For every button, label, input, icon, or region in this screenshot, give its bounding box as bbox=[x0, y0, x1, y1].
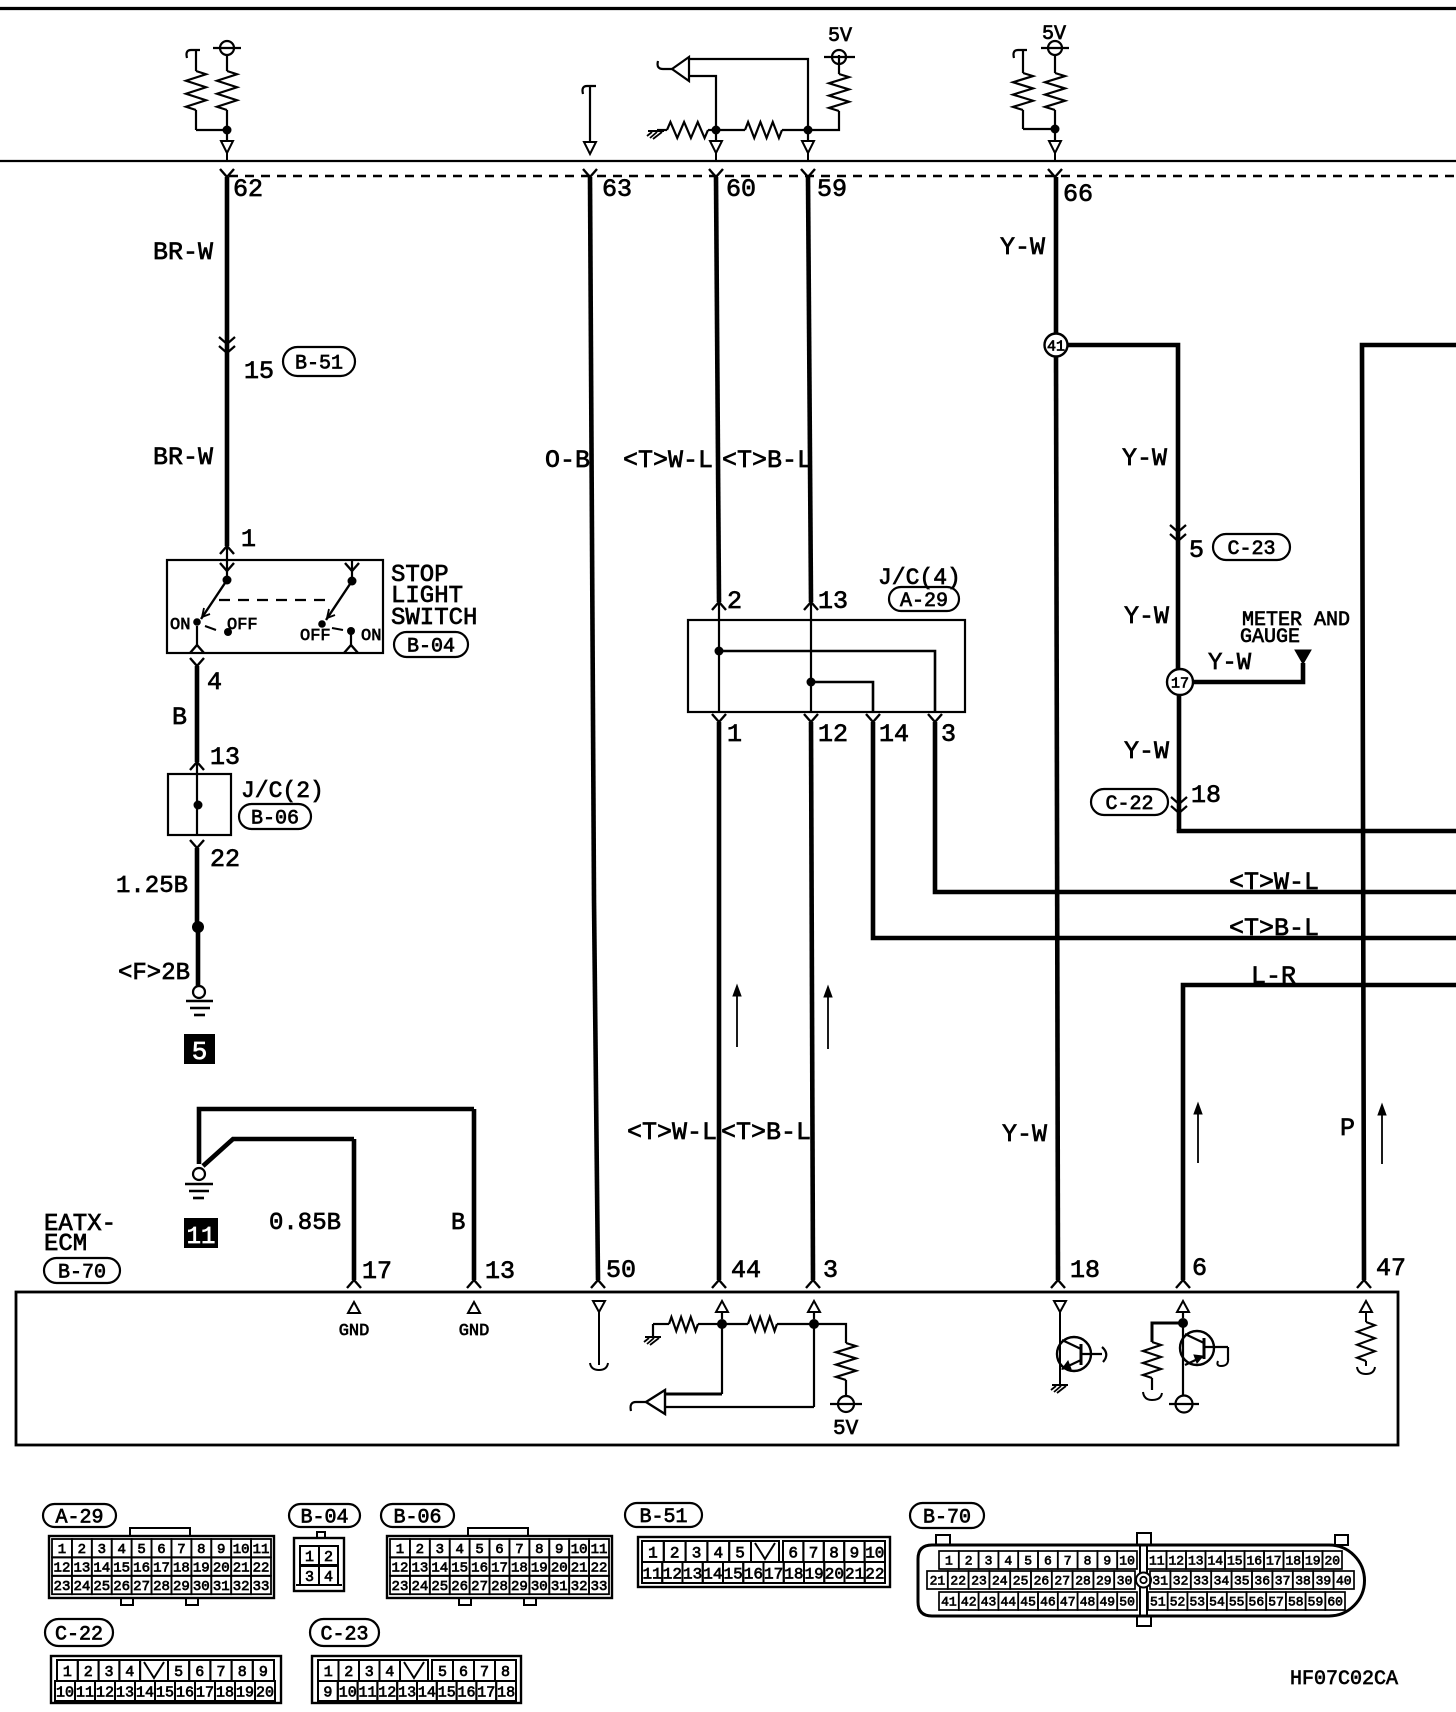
svg-text:6: 6 bbox=[788, 1544, 798, 1562]
svg-text:22: 22 bbox=[591, 1561, 608, 1577]
wire P from right edge to pin47 bbox=[1362, 345, 1456, 1280]
svg-text:20: 20 bbox=[825, 1565, 844, 1583]
svg-text:13: 13 bbox=[683, 1565, 702, 1583]
svg-text:23: 23 bbox=[54, 1579, 71, 1595]
svg-text:20: 20 bbox=[1324, 1554, 1340, 1569]
svg-text:1: 1 bbox=[63, 1664, 72, 1681]
svg-text:41: 41 bbox=[941, 1595, 957, 1610]
resistor R-int4 bbox=[720, 129, 745, 131]
svg-text:B-06: B-06 bbox=[251, 808, 299, 831]
pin 50 hook bbox=[590, 1363, 608, 1370]
svg-text:44: 44 bbox=[1000, 1595, 1016, 1610]
wire L-R from right edge to pin6 bbox=[1183, 985, 1456, 1280]
splice node bbox=[192, 921, 204, 933]
hook at Q1 base bbox=[1102, 1347, 1106, 1362]
svg-text:47: 47 bbox=[1060, 1595, 1076, 1610]
svg-text:7: 7 bbox=[1064, 1554, 1072, 1569]
svg-text:10: 10 bbox=[339, 1684, 357, 1701]
meter arrow bbox=[1295, 650, 1311, 664]
svg-text:52: 52 bbox=[1170, 1595, 1186, 1610]
svg-text:C-23: C-23 bbox=[320, 1624, 368, 1647]
transistor Q1 base bar bbox=[1080, 1344, 1083, 1365]
svg-text:16: 16 bbox=[133, 1561, 150, 1577]
svg-text:17: 17 bbox=[1171, 676, 1189, 693]
svg-text:8: 8 bbox=[829, 1544, 839, 1562]
svg-text:30: 30 bbox=[1117, 1574, 1133, 1589]
svg-text:2: 2 bbox=[78, 1542, 86, 1558]
svg-text:4: 4 bbox=[125, 1664, 134, 1681]
svg-text:10: 10 bbox=[865, 1544, 884, 1562]
svg-text:17: 17 bbox=[477, 1684, 495, 1701]
svg-text:13: 13 bbox=[1188, 1554, 1204, 1569]
pin 13 GND arrow bbox=[468, 1302, 480, 1313]
svg-text:42: 42 bbox=[961, 1595, 977, 1610]
svg-text:3: 3 bbox=[692, 1544, 702, 1562]
svg-text:O-B: O-B bbox=[545, 446, 590, 475]
svg-text:14: 14 bbox=[879, 720, 909, 749]
pin 62 internal arrow bbox=[226, 130, 228, 141]
pin 3 internal arrow bbox=[808, 1301, 820, 1312]
ground (pin18) bbox=[1052, 1384, 1068, 1386]
svg-text:31: 31 bbox=[551, 1579, 568, 1595]
wire (T)W-L pin60 to J/C(4) bbox=[716, 177, 719, 602]
tag A-29 bbox=[889, 587, 959, 611]
engine ECM bottom border bbox=[0, 160, 1456, 162]
svg-text:11: 11 bbox=[187, 1224, 216, 1251]
node pin3 bbox=[809, 1319, 819, 1329]
svg-text:21: 21 bbox=[845, 1565, 864, 1583]
wire bbox=[1023, 128, 1055, 130]
svg-text:2: 2 bbox=[324, 1549, 333, 1566]
svg-text:60: 60 bbox=[726, 175, 756, 204]
switch link dash 1 bbox=[205, 626, 216, 630]
svg-text:4: 4 bbox=[713, 1544, 723, 1562]
svg-text:1: 1 bbox=[305, 1549, 314, 1566]
hook at buffer U-bottom bbox=[631, 1402, 646, 1411]
pin 3 fork bbox=[806, 1280, 813, 1288]
svg-text:28: 28 bbox=[491, 1579, 508, 1595]
svg-text:24: 24 bbox=[73, 1579, 90, 1595]
resistor R-int2 (pin62 right) bbox=[226, 55, 228, 71]
svg-text:5: 5 bbox=[438, 1664, 447, 1681]
pin 47 fork bbox=[1357, 1280, 1364, 1288]
pin 17 fork bbox=[347, 1280, 354, 1288]
svg-text:8: 8 bbox=[535, 1542, 543, 1558]
svg-text:1: 1 bbox=[241, 525, 256, 554]
junction node (pin59) bbox=[804, 126, 813, 135]
svg-text:C-22: C-22 bbox=[55, 1624, 103, 1647]
svg-text:10: 10 bbox=[1119, 1554, 1135, 1569]
svg-text:19: 19 bbox=[1305, 1554, 1321, 1569]
svg-text:5V: 5V bbox=[828, 25, 852, 48]
svg-text:12: 12 bbox=[1168, 1554, 1184, 1569]
buffer U-bottom bbox=[646, 1390, 665, 1414]
J/C(2) exit fork bbox=[190, 840, 197, 848]
svg-text:44: 44 bbox=[731, 1256, 761, 1285]
svg-text:BR-W: BR-W bbox=[153, 238, 213, 267]
switch output lead bbox=[196, 626, 198, 645]
switch exit fork bbox=[190, 658, 197, 666]
switch blade 1 bbox=[201, 580, 227, 619]
ground symbol 11 bars bbox=[185, 1183, 213, 1186]
svg-text:13: 13 bbox=[116, 1684, 134, 1701]
switch OFF contact 1 bbox=[224, 628, 232, 636]
svg-text:14: 14 bbox=[136, 1684, 154, 1701]
svg-text:56: 56 bbox=[1249, 1595, 1265, 1610]
svg-text:50: 50 bbox=[1119, 1595, 1135, 1610]
J/C(4) lead pin2-pin1 bbox=[718, 620, 720, 712]
svg-text:B-06: B-06 bbox=[393, 1507, 441, 1530]
svg-text:13: 13 bbox=[398, 1684, 416, 1701]
svg-text:5: 5 bbox=[1189, 536, 1204, 565]
pin 63 fork bbox=[583, 169, 590, 177]
connector boundary dashed line bbox=[229, 175, 1456, 177]
svg-text:GND: GND bbox=[459, 1322, 490, 1341]
svg-text:2: 2 bbox=[84, 1664, 93, 1681]
svg-text:B-04: B-04 bbox=[300, 1507, 348, 1530]
svg-text:39: 39 bbox=[1316, 1574, 1332, 1589]
pin 63 internal lead bbox=[589, 86, 591, 142]
hook to internal circuit (pin62 left resistor) bbox=[187, 50, 201, 58]
transistor Q1 circle bbox=[1057, 1337, 1091, 1371]
wire (T)W-L J/C(4) to pin44 bbox=[717, 722, 722, 1280]
svg-text:18: 18 bbox=[216, 1684, 234, 1701]
svg-text:<T>W-L: <T>W-L bbox=[627, 1118, 717, 1147]
svg-text:17: 17 bbox=[1266, 1554, 1282, 1569]
pin 66 fork bbox=[1048, 169, 1055, 177]
svg-text:6: 6 bbox=[1192, 1254, 1207, 1283]
svg-text:17: 17 bbox=[764, 1565, 783, 1583]
pin 18 internal lead bbox=[1059, 1312, 1061, 1384]
J/C(4) pin14 fork bbox=[866, 714, 873, 722]
transistor Q2 emitter bbox=[1185, 1356, 1204, 1365]
svg-text:22: 22 bbox=[950, 1574, 966, 1589]
switch ON contact 1 bbox=[193, 618, 201, 626]
svg-text:15: 15 bbox=[1227, 1554, 1243, 1569]
svg-text:21: 21 bbox=[571, 1561, 588, 1577]
ground symbol 5 bars bbox=[186, 1000, 213, 1003]
connector C-22 break chevrons bbox=[1171, 797, 1187, 804]
svg-text:20: 20 bbox=[551, 1561, 568, 1577]
J/C(4) internal bus B bbox=[811, 682, 873, 712]
svg-text:50: 50 bbox=[606, 1256, 636, 1285]
svg-text:2: 2 bbox=[670, 1544, 680, 1562]
svg-text:Y-W: Y-W bbox=[1000, 233, 1045, 262]
svg-text:28: 28 bbox=[1075, 1574, 1091, 1589]
svg-text:29: 29 bbox=[511, 1579, 528, 1595]
svg-text:ON: ON bbox=[361, 627, 381, 646]
svg-text:13: 13 bbox=[485, 1257, 515, 1286]
svg-text:24: 24 bbox=[992, 1574, 1008, 1589]
svg-text:57: 57 bbox=[1268, 1595, 1284, 1610]
svg-text:33: 33 bbox=[1193, 1574, 1209, 1589]
wire to 5V pullup bbox=[812, 111, 839, 130]
junction node (pin62) bbox=[223, 126, 232, 135]
svg-text:12: 12 bbox=[96, 1684, 114, 1701]
svg-text:B: B bbox=[451, 1210, 465, 1237]
switch link dash 2 bbox=[332, 628, 343, 630]
switch pole 1 node bbox=[223, 576, 232, 585]
svg-text:33: 33 bbox=[591, 1579, 608, 1595]
J/C(4) pin12 fork bbox=[804, 714, 811, 722]
svg-text:18: 18 bbox=[511, 1561, 528, 1577]
node pin44 bbox=[717, 1319, 727, 1329]
pin 60 internal arrow bbox=[715, 130, 717, 141]
svg-text:19: 19 bbox=[193, 1561, 210, 1577]
svg-text:SWITCH: SWITCH bbox=[391, 605, 477, 632]
svg-text:ON: ON bbox=[170, 616, 190, 635]
svg-text:17: 17 bbox=[153, 1561, 170, 1577]
svg-text:16: 16 bbox=[457, 1684, 475, 1701]
wire B switch to J/C(2) bbox=[195, 666, 200, 762]
svg-text:1: 1 bbox=[324, 1664, 333, 1681]
connector B-06 pinout bbox=[381, 1504, 454, 1527]
svg-text:30: 30 bbox=[531, 1579, 548, 1595]
svg-text:41: 41 bbox=[1047, 339, 1065, 356]
svg-text:37: 37 bbox=[1275, 1574, 1291, 1589]
svg-text:13: 13 bbox=[73, 1561, 90, 1577]
svg-text:32: 32 bbox=[571, 1579, 588, 1595]
pin 44 internal arrow bbox=[716, 1301, 728, 1312]
buffer U-top bbox=[672, 57, 689, 81]
svg-text:Y-W: Y-W bbox=[1124, 602, 1169, 631]
svg-text:17: 17 bbox=[491, 1561, 508, 1577]
svg-text:9: 9 bbox=[555, 1542, 563, 1558]
svg-text:B-04: B-04 bbox=[407, 636, 455, 659]
svg-text:1: 1 bbox=[396, 1542, 404, 1558]
svg-text:47: 47 bbox=[1376, 1254, 1406, 1283]
svg-text:32: 32 bbox=[1173, 1574, 1189, 1589]
resistor R-int9 bbox=[722, 1323, 748, 1325]
svg-text:14: 14 bbox=[93, 1561, 110, 1577]
pin 13 fork bbox=[467, 1280, 474, 1288]
J/C(4) node A bbox=[715, 647, 724, 656]
wire to meter and gauge bbox=[1193, 663, 1303, 682]
direction arrow (T)B-L bbox=[827, 993, 829, 1049]
wire to resistor bbox=[1152, 1323, 1183, 1342]
pin 60 fork bbox=[709, 169, 716, 177]
resistor R-int12 bbox=[1357, 1322, 1375, 1361]
svg-text:11: 11 bbox=[253, 1542, 270, 1558]
svg-text:14: 14 bbox=[1207, 1554, 1223, 1569]
pin 59 internal arrow bbox=[807, 130, 809, 141]
svg-text:B: B bbox=[172, 703, 187, 732]
svg-text:5V: 5V bbox=[833, 1418, 859, 1441]
svg-text:12: 12 bbox=[378, 1684, 396, 1701]
svg-text:17: 17 bbox=[196, 1684, 214, 1701]
svg-text:C-22: C-22 bbox=[1105, 793, 1153, 816]
wire 0.85B diagonal bbox=[203, 1139, 354, 1166]
hook at Q2 base bbox=[1217, 1358, 1228, 1366]
wire O-B pin63 to pin50 bbox=[590, 177, 594, 900]
hook to internal circuit (buffer U-top) bbox=[658, 61, 672, 69]
svg-text:59: 59 bbox=[1308, 1595, 1324, 1610]
svg-text:15: 15 bbox=[244, 357, 274, 386]
ground (buffer top) bbox=[657, 129, 667, 131]
ground symbol 5 circle bbox=[193, 986, 205, 998]
svg-text:7: 7 bbox=[480, 1664, 489, 1681]
svg-text:3: 3 bbox=[365, 1664, 374, 1681]
transistor Q2 base lead bbox=[1204, 1346, 1228, 1348]
svg-text:1: 1 bbox=[58, 1542, 66, 1558]
svg-text:54: 54 bbox=[1209, 1595, 1225, 1610]
svg-text:4: 4 bbox=[455, 1542, 463, 1558]
svg-text:16: 16 bbox=[176, 1684, 194, 1701]
svg-text:40: 40 bbox=[1336, 1574, 1352, 1589]
svg-text:11: 11 bbox=[591, 1542, 608, 1558]
svg-text:66: 66 bbox=[1063, 180, 1093, 209]
connector B-51 break chevrons bbox=[219, 337, 235, 344]
pin 63 internal arrow bbox=[584, 142, 596, 154]
svg-text:13: 13 bbox=[411, 1561, 428, 1577]
svg-text:46: 46 bbox=[1040, 1595, 1056, 1610]
svg-text:27: 27 bbox=[133, 1579, 150, 1595]
J/C(4) pin3 fork bbox=[928, 714, 935, 722]
svg-text:27: 27 bbox=[1054, 1574, 1070, 1589]
svg-text:21: 21 bbox=[233, 1561, 250, 1577]
tag B-51 bbox=[283, 347, 355, 376]
wire 1.25B bbox=[195, 848, 200, 924]
svg-text:14: 14 bbox=[703, 1565, 722, 1583]
output symbol (pin6) bbox=[1176, 1396, 1193, 1413]
svg-text:<T>B-L: <T>B-L bbox=[722, 446, 812, 475]
resistor R-int7 (pin66 right) bbox=[1054, 55, 1056, 73]
connector B-04 pinout bbox=[289, 1504, 360, 1527]
svg-text:11: 11 bbox=[643, 1565, 662, 1583]
wire Y-W pin66 to node41 bbox=[1054, 177, 1059, 334]
svg-text:10: 10 bbox=[571, 1542, 588, 1558]
connector C-23 break chevrons bbox=[1170, 525, 1186, 532]
svg-text:5: 5 bbox=[735, 1544, 745, 1562]
svg-text:3: 3 bbox=[436, 1542, 444, 1558]
svg-text:4: 4 bbox=[1004, 1554, 1012, 1569]
svg-text:5: 5 bbox=[192, 1037, 208, 1067]
svg-text:GAUGE: GAUGE bbox=[1240, 626, 1300, 649]
svg-text:7: 7 bbox=[809, 1544, 819, 1562]
connector B-51 pinout bbox=[625, 1503, 702, 1527]
svg-text:6: 6 bbox=[1044, 1554, 1052, 1569]
svg-text:<F>2B: <F>2B bbox=[118, 960, 190, 987]
svg-text:GND: GND bbox=[339, 1322, 370, 1341]
junction node (pin66) bbox=[1051, 125, 1060, 134]
svg-text:18: 18 bbox=[1191, 781, 1221, 810]
svg-text:<T>B-L: <T>B-L bbox=[721, 1118, 811, 1147]
5V supply symbol (top middle) bbox=[832, 50, 846, 64]
svg-text:16: 16 bbox=[744, 1565, 763, 1583]
svg-text:15: 15 bbox=[724, 1565, 743, 1583]
switch pole 2 to box edge bbox=[350, 631, 352, 645]
svg-text:6: 6 bbox=[195, 1664, 204, 1681]
connector C-22 pinout bbox=[45, 1619, 113, 1646]
svg-text:P: P bbox=[1340, 1114, 1355, 1143]
wire bbox=[708, 129, 712, 131]
svg-text:15: 15 bbox=[156, 1684, 174, 1701]
svg-text:11: 11 bbox=[1149, 1554, 1165, 1569]
svg-text:15: 15 bbox=[451, 1561, 468, 1577]
svg-text:11: 11 bbox=[76, 1684, 94, 1701]
pin 47 internal arrow bbox=[1360, 1301, 1372, 1312]
hook below R-int12 bbox=[1357, 1367, 1375, 1374]
svg-text:3: 3 bbox=[823, 1256, 838, 1285]
svg-text:2: 2 bbox=[344, 1664, 353, 1681]
transistor Q1 emitter bbox=[1062, 1360, 1081, 1369]
J/C(2) entry fork bbox=[190, 762, 197, 770]
svg-text:7: 7 bbox=[177, 1542, 185, 1558]
tag C-23 bbox=[1213, 534, 1290, 560]
svg-text:B-70: B-70 bbox=[58, 1262, 106, 1285]
node 17 circle bbox=[1167, 669, 1193, 695]
svg-text:58: 58 bbox=[1288, 1595, 1304, 1610]
svg-text:9: 9 bbox=[217, 1542, 225, 1558]
switch pole 2 node bbox=[348, 577, 357, 586]
svg-text:9: 9 bbox=[850, 1544, 860, 1562]
resistor R-int5 (5V pullup) bbox=[829, 74, 849, 111]
svg-text:ECM: ECM bbox=[44, 1231, 87, 1258]
svg-text:27: 27 bbox=[471, 1579, 488, 1595]
resistor R-int1 (pin62 left) bbox=[195, 50, 197, 71]
svg-text:19: 19 bbox=[805, 1565, 824, 1583]
direction arrow (T)W-L bbox=[736, 992, 738, 1047]
node pin6 bbox=[1178, 1318, 1188, 1328]
svg-text:28: 28 bbox=[153, 1579, 170, 1595]
svg-text:13: 13 bbox=[818, 587, 848, 616]
svg-text:15: 15 bbox=[438, 1684, 456, 1701]
svg-text:10: 10 bbox=[56, 1684, 74, 1701]
svg-text:34: 34 bbox=[1214, 1574, 1230, 1589]
svg-text:63: 63 bbox=[602, 175, 632, 204]
svg-text:38: 38 bbox=[1295, 1574, 1311, 1589]
switch ON contact 2 bbox=[347, 627, 355, 635]
J/C(2) node bbox=[194, 801, 203, 810]
tag C-22 bbox=[1091, 789, 1168, 815]
svg-text:OFF: OFF bbox=[300, 627, 331, 646]
svg-text:Y-W: Y-W bbox=[1208, 650, 1252, 677]
svg-text:20: 20 bbox=[213, 1561, 230, 1577]
resistor R-int8 bbox=[710, 1323, 722, 1325]
svg-text:3: 3 bbox=[98, 1542, 106, 1558]
svg-text:32: 32 bbox=[233, 1579, 250, 1595]
tag B-04 bbox=[394, 632, 468, 657]
svg-text:22: 22 bbox=[210, 845, 240, 874]
direction arrow P bbox=[1381, 1111, 1383, 1164]
svg-text:14: 14 bbox=[418, 1684, 436, 1701]
buffer input lead 2 bbox=[813, 1324, 815, 1407]
engine ECM top border bbox=[0, 7, 1456, 10]
svg-text:3: 3 bbox=[941, 720, 956, 749]
svg-text:12: 12 bbox=[54, 1561, 71, 1577]
resistor R-int11 bbox=[1143, 1342, 1161, 1378]
connector C-23 pinout bbox=[310, 1619, 379, 1646]
svg-text:1: 1 bbox=[945, 1554, 953, 1569]
svg-text:25: 25 bbox=[93, 1579, 110, 1595]
wire B to pin13 bbox=[472, 1109, 477, 1280]
svg-text:1.25B: 1.25B bbox=[116, 873, 188, 900]
svg-text:1: 1 bbox=[648, 1544, 658, 1562]
svg-text:8: 8 bbox=[197, 1542, 205, 1558]
svg-text:18: 18 bbox=[173, 1561, 190, 1577]
wire (T)B-L branch to right bbox=[873, 722, 1456, 938]
connector A-29 pinout bbox=[43, 1504, 116, 1527]
svg-text:<T>W-L: <T>W-L bbox=[623, 446, 713, 475]
svg-text:8: 8 bbox=[238, 1664, 247, 1681]
pin 18 internal arrow bbox=[1054, 1301, 1066, 1312]
pin 50 internal lead bbox=[598, 1312, 600, 1365]
svg-text:33: 33 bbox=[253, 1579, 270, 1595]
hook to internal circuit (pin66 left resistor) bbox=[1014, 50, 1028, 58]
pin 50 fork bbox=[591, 1280, 598, 1288]
svg-text:26: 26 bbox=[1034, 1574, 1050, 1589]
svg-text:C-23: C-23 bbox=[1227, 538, 1275, 561]
